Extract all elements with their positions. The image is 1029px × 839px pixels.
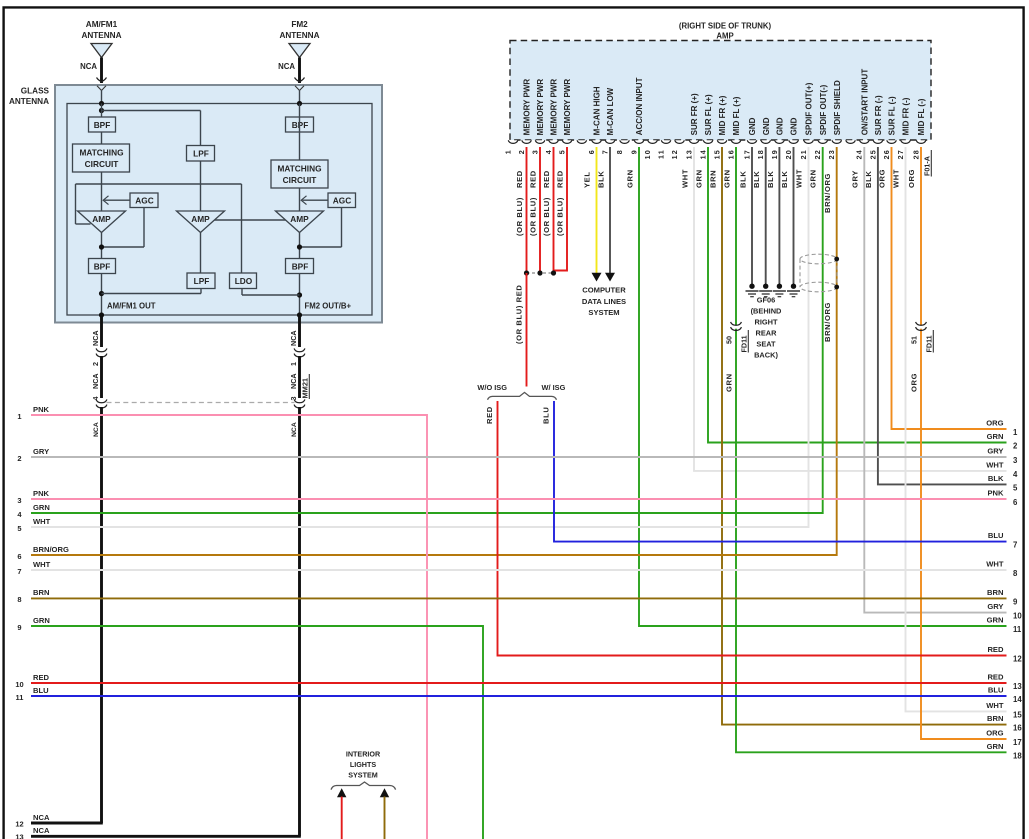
svg-text:8: 8 — [615, 149, 624, 154]
svg-text:BRN: BRN — [33, 588, 49, 597]
svg-text:GRY: GRY — [851, 170, 860, 188]
svg-text:MID FL (+): MID FL (+) — [732, 96, 741, 135]
wire AMP2 output to AMP3 link — [215, 219, 286, 221]
svg-text:CIRCUIT: CIRCUIT — [283, 175, 317, 185]
svg-text:ANTENNA: ANTENNA — [81, 31, 121, 40]
label right pin number 2 — [1013, 442, 1018, 451]
wire ON/START INPUT pin 24 GRY to right pin 10 — [864, 147, 1006, 613]
svg-text:FD11: FD11 — [925, 335, 934, 352]
svg-text:WHT: WHT — [986, 701, 1004, 710]
svg-text:COMPUTER: COMPUTER — [582, 286, 626, 295]
svg-text:GLASS: GLASS — [21, 87, 50, 96]
antenna AM/FM1 symbol — [91, 44, 112, 58]
svg-text:BRN: BRN — [987, 588, 1003, 597]
connector inline on AM/FM1 OUT lead — [96, 348, 107, 357]
svg-text:4: 4 — [91, 397, 100, 401]
antenna FM2 label — [279, 20, 319, 40]
label AMP pin 28 function MID FL (-) — [917, 98, 926, 135]
label left pin 11 BLU — [33, 686, 49, 695]
svg-text:LPF: LPF — [193, 149, 209, 159]
label left pin number 13 — [15, 833, 23, 839]
svg-text:2: 2 — [17, 454, 21, 463]
label right pin number 12 — [1013, 655, 1022, 664]
svg-text:RED: RED — [556, 170, 565, 188]
matching circuit 2 box — [271, 160, 328, 188]
svg-text:7: 7 — [17, 567, 21, 576]
wire BPF3 to AM/FM1 OUT node — [99, 274, 104, 318]
label NCA below connector on lead 2 — [291, 422, 298, 437]
svg-text:25: 25 — [868, 149, 877, 159]
label AMP pin 26 function SUR FL (-) — [888, 96, 897, 135]
label AMP pin 4 function MEMORY PWR — [550, 79, 559, 136]
label right pin number 1 — [1013, 428, 1018, 437]
svg-text:ORG: ORG — [986, 419, 1003, 428]
svg-text:GRN: GRN — [725, 373, 734, 392]
label right pin 16 BRN — [987, 714, 1003, 723]
label left pin 4 GRN — [33, 503, 50, 512]
label BLK pin 20 — [780, 171, 789, 188]
wire LPF1 to AMP2 — [200, 161, 202, 211]
svg-text:5: 5 — [1013, 483, 1018, 492]
svg-text:MATCHING: MATCHING — [277, 164, 321, 174]
svg-text:INTERIOR: INTERIOR — [346, 750, 381, 759]
label left pin number 3 — [17, 496, 21, 505]
svg-text:10: 10 — [643, 149, 652, 159]
label RED (OR BLU) pin2 — [515, 170, 524, 236]
svg-text:(OR BLU): (OR BLU) — [529, 197, 538, 236]
label GRN pin 22 — [809, 169, 818, 188]
label 51 FD11 — [910, 330, 934, 353]
svg-text:MID FL (-): MID FL (-) — [917, 98, 926, 135]
wire SPDIF SHIELD pin 23 BRN/ORG to left pin 6 — [31, 147, 837, 555]
dashed connector tie line between NCA leads — [107, 402, 295, 404]
label AMP pin 24 function ON/START INPUT — [861, 69, 870, 136]
wire left pin 8 BRN to right pin 9 — [31, 597, 1007, 599]
label left pin 10 RED — [33, 673, 50, 682]
svg-text:GND: GND — [776, 117, 785, 135]
svg-text:17: 17 — [742, 149, 751, 159]
svg-text:GRN: GRN — [626, 169, 635, 188]
svg-text:GND: GND — [762, 117, 771, 135]
svg-text:51: 51 — [910, 336, 919, 344]
svg-text:FM2 OUT/B+: FM2 OUT/B+ — [305, 302, 352, 311]
glass antenna label — [9, 87, 50, 107]
label right pin 4 WHT — [986, 461, 1004, 470]
label BLK pin 17 — [739, 171, 748, 188]
svg-text:WHT: WHT — [986, 461, 1004, 470]
connector inline on FM2 OUT lead — [294, 348, 305, 357]
label BLU W/ ISG — [542, 407, 551, 424]
svg-text:CIRCUIT: CIRCUIT — [85, 159, 119, 169]
node AMP3 output dot — [297, 233, 302, 259]
wire interior lights feed 1 RED — [337, 788, 346, 839]
svg-text:ANTENNA: ANTENNA — [9, 97, 49, 106]
label left pin 3 PNK — [33, 489, 50, 498]
svg-text:8: 8 — [1013, 569, 1018, 578]
wire LPF2 to AM/FM1 OUT junction — [102, 289, 202, 294]
svg-text:12: 12 — [1013, 655, 1022, 664]
wire left pin 11 BLU to right pin 14 — [31, 695, 1007, 697]
node shield tap upper dot — [834, 257, 839, 262]
label left pin number 5 — [17, 524, 21, 533]
wire AGC2 sense line to AMP3 output — [300, 208, 342, 248]
svg-text:13: 13 — [15, 833, 23, 839]
label right pin number 17 — [1013, 738, 1022, 747]
wire ACC/ON INPUT pin 9 GRN to right pin 11 — [639, 147, 1007, 626]
label WHT pin 21 — [795, 169, 804, 188]
svg-text:GND: GND — [790, 117, 799, 135]
op-amp AMP1 triangle — [78, 211, 126, 233]
label RED (OR BLU) pin3 — [529, 170, 538, 236]
svg-text:LPF: LPF — [194, 276, 210, 286]
svg-text:WHT: WHT — [986, 560, 1004, 569]
svg-text:RED: RED — [529, 170, 538, 188]
svg-text:ORG: ORG — [986, 729, 1003, 738]
svg-text:RIGHT: RIGHT — [755, 318, 778, 327]
svg-text:22: 22 — [813, 149, 822, 159]
label W/ ISG — [542, 383, 566, 392]
glass antenna outer box — [55, 85, 382, 323]
svg-text:RED: RED — [485, 406, 494, 424]
label left pin number 7 — [17, 567, 21, 576]
svg-text:RED: RED — [987, 673, 1004, 682]
svg-text:BLK: BLK — [988, 474, 1004, 483]
label AMP pin 2 function MEMORY PWR — [523, 79, 532, 136]
op-amp AMP3 triangle — [276, 211, 324, 233]
labels AMP pin numbers 1-28 — [503, 149, 920, 159]
svg-text:ON/START INPUT: ON/START INPUT — [861, 69, 870, 136]
label right pin number 7 — [1013, 541, 1017, 550]
svg-text:ORG: ORG — [878, 169, 887, 188]
svg-text:SUR FL (+): SUR FL (+) — [704, 94, 713, 135]
svg-text:W/O ISG: W/O ISG — [477, 383, 507, 392]
wire LDO to FM2 OUT junction — [242, 289, 300, 296]
svg-text:GRY: GRY — [987, 602, 1003, 611]
svg-text:BLU: BLU — [542, 407, 551, 424]
svg-text:WHT: WHT — [892, 169, 901, 188]
label NCA below connector on lead 1 — [93, 422, 100, 437]
svg-text:8: 8 — [17, 595, 21, 604]
svg-text:AMP: AMP — [191, 214, 210, 224]
label left pin number 8 — [17, 595, 21, 604]
label left pin 12 NCA — [33, 813, 50, 822]
svg-text:GRN: GRN — [33, 503, 50, 512]
label AMP pin 5 function MEMORY PWR — [563, 79, 572, 136]
label left pin 8 BRN — [33, 588, 49, 597]
svg-text:SYSTEM: SYSTEM — [348, 771, 378, 780]
label AMP pin 7 function M-CAN LOW — [606, 87, 615, 135]
label AMP pin 22 function SPDIF OUT(-) — [819, 84, 828, 135]
wire MEMORY PWR pins 2-5 RED drops — [527, 147, 568, 273]
wire SUR FL (-) pin 26 ORG to right pin 1 — [892, 147, 1007, 429]
svg-text:ACC/ON INPUT: ACC/ON INPUT — [635, 77, 644, 135]
label BRN/ORG shield mid-run — [823, 302, 832, 342]
label 50 FD11 — [725, 330, 749, 353]
svg-text:2: 2 — [91, 362, 100, 366]
svg-text:21: 21 — [799, 149, 808, 159]
svg-text:23: 23 — [827, 149, 836, 159]
svg-text:SYSTEM: SYSTEM — [588, 308, 619, 317]
svg-text:BLK: BLK — [766, 171, 775, 188]
svg-text:(RIGHT SIDE OF TRUNK): (RIGHT SIDE OF TRUNK) — [679, 22, 772, 31]
wire M-CAN LOW pin 7 BLK — [605, 147, 615, 282]
wire NCA from AM/FM1 antenna into glass antenna box — [97, 58, 107, 104]
svg-text:(OR BLU) RED: (OR BLU) RED — [515, 284, 524, 344]
svg-text:BLU: BLU — [988, 686, 1004, 695]
svg-text:GRN: GRN — [33, 616, 50, 625]
svg-text:7: 7 — [600, 149, 609, 154]
label BLK pin 18 — [752, 171, 761, 188]
svg-text:AMP: AMP — [92, 214, 111, 224]
label right pin number 9 — [1013, 597, 1018, 606]
svg-text:4: 4 — [1013, 470, 1018, 479]
svg-text:NCA: NCA — [33, 826, 50, 835]
svg-text:13: 13 — [684, 149, 693, 159]
svg-text:NCA: NCA — [291, 422, 298, 437]
svg-text:13: 13 — [1013, 682, 1022, 691]
label right pin number 5 — [1013, 483, 1018, 492]
svg-text:12: 12 — [15, 820, 23, 829]
svg-text:RED: RED — [542, 170, 551, 188]
svg-text:18: 18 — [756, 149, 765, 159]
svg-text:MID FR (+): MID FR (+) — [718, 95, 727, 135]
wire from AM/FM1 input to LPF1 — [102, 104, 201, 146]
connector AMP dashed box — [510, 41, 931, 141]
svg-text:BRN: BRN — [987, 714, 1003, 723]
node MEMORY PWR junction dots — [524, 270, 556, 275]
label AM/FM1 OUT — [107, 302, 156, 311]
wire matching circuit 2 to AMP3 — [299, 188, 301, 211]
svg-text:LIGHTS: LIGHTS — [350, 760, 377, 769]
label right pin 8 WHT — [986, 560, 1004, 569]
wire NCA lead from FM2 OUT upper segment — [298, 315, 301, 347]
label right pin number 10 — [1013, 612, 1022, 621]
label ORG mid-run pin 28 — [910, 373, 919, 392]
svg-text:NCA: NCA — [278, 62, 295, 71]
svg-text:MM21: MM21 — [301, 378, 310, 399]
wire MID FL (+) pin 16 GRN to right pin 18 — [736, 147, 1007, 752]
svg-text:GRN: GRN — [695, 169, 704, 188]
node shield tap lower dot — [834, 285, 839, 290]
connector AMP pin sockets row — [508, 140, 926, 143]
wire SUR FR (+) pin 13 WHT to right pin 4 — [694, 147, 1007, 471]
svg-text:FM2: FM2 — [291, 20, 308, 29]
svg-text:10: 10 — [15, 680, 23, 689]
svg-text:BPF: BPF — [94, 262, 111, 272]
label RED (OR BLU) pin5 — [556, 170, 565, 236]
label right pin number 13 — [1013, 682, 1022, 691]
svg-text:3: 3 — [17, 496, 21, 505]
shield cylinder around SPDIF pair — [800, 254, 837, 292]
svg-text:2: 2 — [1013, 442, 1018, 451]
svg-text:7: 7 — [1013, 541, 1017, 550]
label right pin 7 BLU — [988, 531, 1004, 540]
svg-text:1: 1 — [289, 362, 298, 366]
label NCA at FM2 antenna lead — [278, 62, 295, 71]
label AMP pin 3 function MEMORY PWR — [536, 79, 545, 136]
label left pin number 11 — [16, 693, 24, 702]
label right pin number 11 — [1013, 625, 1022, 634]
label right pin number 4 — [1013, 470, 1018, 479]
label pins 4 NCA 2 on AM/FM1 OUT lead — [91, 362, 100, 401]
ground GF06 pin 18 — [759, 283, 772, 297]
antenna AM/FM1 label — [81, 20, 121, 40]
svg-text:(OR BLU): (OR BLU) — [515, 197, 524, 236]
glass antenna inner box — [67, 104, 372, 316]
svg-text:BLU: BLU — [988, 531, 1004, 540]
svg-text:GRN: GRN — [987, 742, 1004, 751]
svg-text:ORG: ORG — [907, 169, 916, 188]
svg-text:GRN: GRN — [987, 432, 1004, 441]
wire BPF4 to FM2 OUT node — [297, 274, 302, 318]
ground GF06 pin 19 — [773, 283, 786, 297]
label AMP — [716, 32, 733, 41]
svg-text:1: 1 — [1013, 428, 1018, 437]
svg-text:BRN/ORG: BRN/ORG — [823, 173, 832, 213]
bandpass filter BPF1 — [89, 117, 116, 132]
label WHT pin 27 — [892, 169, 901, 188]
brace ISG split — [488, 392, 557, 399]
svg-text:ORG: ORG — [910, 373, 919, 392]
svg-text:GRN: GRN — [809, 169, 818, 188]
voltage regulator LDO — [230, 273, 257, 289]
svg-text:NCA: NCA — [93, 422, 100, 437]
wire left pin 7 WHT to right pin 8 — [31, 569, 1007, 571]
svg-text:BLK: BLK — [864, 171, 873, 188]
wire NCA lead from AM/FM1 OUT upper segment — [100, 315, 103, 347]
svg-text:GRN: GRN — [987, 616, 1004, 625]
label BLK pin 7 — [597, 171, 606, 188]
svg-text:AM/FM1: AM/FM1 — [86, 20, 118, 29]
AGC control box AGC2 — [328, 193, 356, 208]
wire GND pins 17-20 BLK drops — [752, 147, 794, 283]
node AMP1 output dot — [99, 233, 104, 259]
label AMP pin 18 function GND — [762, 117, 771, 135]
label right pin number 6 — [1013, 498, 1018, 507]
matching circuit 1 box — [73, 144, 130, 172]
wire left pin 1 PNK down to bottom edge — [31, 415, 427, 839]
label right pin 1 ORG — [986, 419, 1003, 428]
label left pin number 6 — [17, 552, 21, 561]
svg-text:11: 11 — [1013, 625, 1022, 634]
ground GF06 pin 20 — [787, 283, 800, 297]
svg-text:GRY: GRY — [33, 447, 49, 456]
svg-text:NCA: NCA — [289, 373, 298, 389]
label W/O ISG — [477, 383, 507, 392]
label left pin 6 BRN/ORG — [33, 545, 69, 554]
label left pin 1 PNK — [33, 405, 50, 414]
label RED (OR BLU) pin4 — [542, 170, 551, 236]
label right pin 6 PNK — [987, 489, 1004, 498]
antenna FM2 symbol — [289, 44, 310, 58]
svg-text:11: 11 — [16, 693, 24, 702]
label left pin 9 GRN — [33, 616, 50, 625]
svg-text:6: 6 — [587, 149, 596, 154]
label left pin number 2 — [17, 454, 21, 463]
wire NCA lead 2 lower run to pin 13 — [31, 407, 301, 836]
label connector F01-A — [923, 150, 932, 177]
label AMP pin 21 function SPDIF OUT(+) — [805, 82, 814, 135]
svg-text:17: 17 — [1013, 738, 1022, 747]
bandpass filter BPF4 — [286, 259, 314, 274]
label ORG pin 28 — [907, 169, 916, 188]
svg-text:28: 28 — [911, 149, 920, 159]
label AMP pin 9 function ACC/ON INPUT — [635, 77, 644, 135]
label AMP pin 6 function M-CAN HIGH — [593, 86, 602, 135]
svg-text:27: 27 — [896, 149, 905, 159]
label left pin 5 WHT — [33, 517, 51, 526]
svg-text:NCA: NCA — [91, 373, 100, 389]
wire merged MEMORY PWR RED feed — [526, 273, 528, 387]
wire BPF1 to matching circuit 1 — [101, 132, 103, 144]
label COMPUTER DATA LINES SYSTEM — [582, 286, 626, 317]
svg-text:M-CAN LOW: M-CAN LOW — [606, 87, 615, 135]
svg-text:BLK: BLK — [597, 171, 606, 188]
wire W/ ISG BLU to right pin 7 — [554, 401, 1007, 542]
svg-text:MEMORY PWR: MEMORY PWR — [563, 79, 572, 136]
label AMP pin 13 function SUR FR (+) — [690, 93, 699, 135]
label connector MM21 — [301, 374, 310, 399]
svg-text:RED: RED — [33, 673, 50, 682]
node FM2 input dot — [297, 101, 302, 106]
label GRN pin 16 — [723, 169, 732, 188]
svg-text:WHT: WHT — [33, 560, 51, 569]
wire SUR FL (+) pin 14 GRN to right pin 2 — [708, 147, 1007, 443]
svg-text:MEMORY PWR: MEMORY PWR — [523, 79, 532, 136]
svg-text:24: 24 — [855, 149, 864, 159]
label right pin 5 BLK — [988, 474, 1004, 483]
label GRN pin 9 — [626, 169, 635, 188]
svg-text:SEAT: SEAT — [756, 340, 776, 349]
label right pin number 18 — [1013, 751, 1022, 760]
svg-text:BPF: BPF — [292, 262, 309, 272]
svg-text:DATA LINES: DATA LINES — [582, 297, 626, 306]
label (RIGHT SIDE OF TRUNK) — [679, 22, 772, 31]
svg-text:MEMORY PWR: MEMORY PWR — [550, 79, 559, 136]
label YEL pin 6 — [583, 171, 592, 188]
svg-text:AMP: AMP — [716, 32, 733, 41]
label left pin 13 NCA — [33, 826, 50, 835]
bandpass filter BPF3 — [89, 259, 116, 274]
wire W/O ISG RED to right pin 12 — [498, 401, 1007, 656]
wire left pin 2 GRY to right pin 3 — [31, 456, 1007, 458]
label FM2 OUT/B+ — [305, 302, 352, 311]
label left pin 7 WHT — [33, 560, 51, 569]
svg-text:19: 19 — [770, 149, 779, 159]
svg-text:AMP: AMP — [290, 214, 309, 224]
label right pin 14 BLU — [988, 686, 1004, 695]
arrow AGC1 to AMP1 input — [103, 196, 130, 205]
svg-text:ANTENNA: ANTENNA — [279, 31, 319, 40]
svg-text:5: 5 — [557, 149, 566, 154]
svg-text:AGC: AGC — [135, 196, 153, 206]
svg-text:PNK: PNK — [33, 405, 50, 414]
label AMP pin 23 function SPDIF SHIELD — [833, 80, 842, 135]
wire AMP2 output to LPF2 — [200, 233, 202, 274]
svg-text:16: 16 — [1013, 724, 1022, 733]
label RED W/O ISG — [485, 406, 494, 424]
label AMP pin 15 function MID FR (+) — [718, 95, 727, 135]
node A junction dots on AM/FM1 input — [99, 101, 104, 113]
label NCA above connector on FM2 OUT lead — [289, 330, 298, 346]
wire left pin 10 RED to right pin 13 — [31, 682, 1007, 684]
low pass filter LPF1 — [187, 146, 215, 162]
wire interior lights feed 2 BRN — [380, 788, 389, 839]
label left pin 2 GRY — [33, 447, 49, 456]
svg-text:SPDIF OUT(-): SPDIF OUT(-) — [819, 84, 828, 135]
svg-text:20: 20 — [784, 149, 793, 159]
connector inline lower on FM2 OUT lead — [294, 399, 305, 408]
